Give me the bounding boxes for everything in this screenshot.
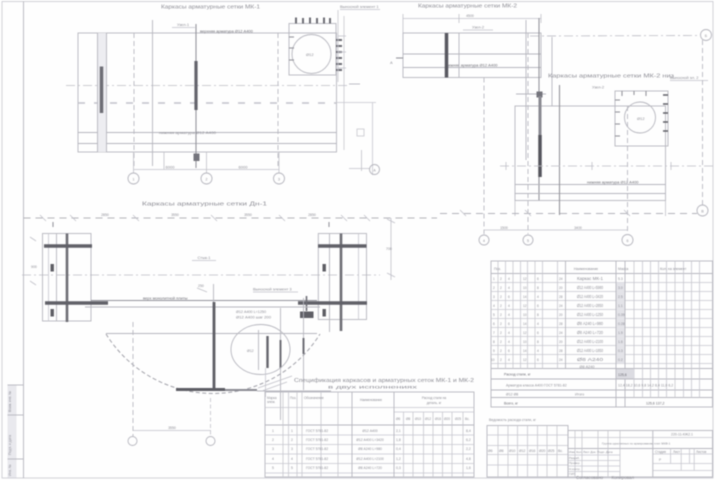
svg-text:Спецификация каркасов и армату: Спецификация каркасов и арматурных сеток… xyxy=(294,378,474,384)
detail element 1 right rebar ticks xyxy=(336,39,342,41)
svg-text:Ø12 А400 L=2100: Ø12 А400 L=2100 xyxy=(577,339,604,344)
view MK-2 lower vertical member xyxy=(559,85,561,215)
svg-text:24: 24 xyxy=(559,277,563,281)
view MK-2 horizontal axis xyxy=(500,165,713,167)
svg-text:8: 8 xyxy=(493,340,495,344)
svg-text:ГОСТ 5781-82: ГОСТ 5781-82 xyxy=(306,447,328,451)
svg-text:4: 4 xyxy=(508,286,510,290)
svg-text:12: 12 xyxy=(523,358,527,362)
svg-text:4: 4 xyxy=(272,457,274,461)
svg-text:1: 1 xyxy=(493,277,495,281)
svg-text:Кол. на элемент: Кол. на элемент xyxy=(660,267,687,271)
title block outline xyxy=(568,431,713,478)
left strip divider 1 xyxy=(8,384,24,386)
detail element 1 box xyxy=(289,24,336,76)
radius leader line xyxy=(258,376,292,388)
svg-text:3: 3 xyxy=(272,447,274,451)
center dim marks xyxy=(197,288,207,292)
svg-text:6000: 6000 xyxy=(239,165,249,170)
left bracket inner verticals xyxy=(48,234,50,322)
view MK-1 dimension line bottom xyxy=(134,169,280,171)
svg-text:Ведомость расхода стали, кг: Ведомость расхода стали, кг xyxy=(489,418,537,422)
svg-text:Ø12: Ø12 xyxy=(519,449,526,453)
svg-text:Ø6: Ø6 xyxy=(396,417,400,421)
svg-text:6,2: 6,2 xyxy=(466,438,471,442)
view MK-2 vertical member xyxy=(458,33,460,78)
grid bubble 5 xyxy=(523,235,533,245)
svg-text:1: 1 xyxy=(272,429,274,433)
bottom dimension line xyxy=(133,430,211,432)
right bracket rebar section marks xyxy=(323,264,326,272)
svg-text:Выносной элемент 3: Выносной элемент 3 xyxy=(253,287,292,292)
svg-text:3: 3 xyxy=(493,295,495,299)
svg-text:4500: 4500 xyxy=(466,14,474,18)
svg-text:верх монолитной плиты: верх монолитной плиты xyxy=(143,296,188,301)
svg-text:4: 4 xyxy=(508,304,510,308)
axis bubble top right xyxy=(701,30,712,41)
svg-text:6: 6 xyxy=(508,295,510,299)
svg-text:4: 4 xyxy=(537,295,539,299)
svg-text:Ø12 А400 L=2850: Ø12 А400 L=2850 xyxy=(577,303,604,308)
specification table header row line xyxy=(491,273,713,275)
center vertical column dark xyxy=(213,302,216,391)
svg-text:4: 4 xyxy=(508,331,510,335)
svg-text:Ø12 А400 L=1850: Ø12 А400 L=1850 xyxy=(577,348,604,353)
svg-text:14: 14 xyxy=(523,349,527,353)
svg-text:20: 20 xyxy=(559,340,563,344)
svg-text:4: 4 xyxy=(508,277,510,281)
detail element 2 circle xyxy=(625,102,656,133)
left margin strip xyxy=(8,385,17,478)
svg-text:1,8: 1,8 xyxy=(396,438,401,442)
position marks right of view MK-1 xyxy=(338,35,346,37)
svg-text:Обозначение: Обозначение xyxy=(304,396,324,400)
view MK-1 grid dashed line C xyxy=(277,33,279,168)
view MK-1 right edge extension xyxy=(337,10,339,82)
axis line to right bubble xyxy=(530,35,700,38)
svg-text:7: 7 xyxy=(493,331,495,335)
svg-text:2: 2 xyxy=(500,322,502,326)
svg-text:Ø12 А400 L=3420: Ø12 А400 L=3420 xyxy=(356,438,384,442)
svg-text:Ø16: Ø16 xyxy=(529,449,536,453)
grid bubble 2 xyxy=(201,173,212,184)
svg-text:1.6: 1.6 xyxy=(618,340,623,344)
middle table header text xyxy=(267,396,470,421)
left bracket top dark band xyxy=(44,244,92,247)
svg-text:0.3: 0.3 xyxy=(618,349,623,353)
svg-text:2850: 2850 xyxy=(308,213,316,217)
view MK-2 lower inner line 2 xyxy=(515,193,666,195)
detail element 1 top rebar ticks xyxy=(295,18,297,24)
grid bubble 4 xyxy=(479,235,489,245)
svg-text:Ø20: Ø20 xyxy=(539,449,546,453)
svg-text:Каркасы арматурные сетки МК-2: Каркасы арматурные сетки МК-2 низ xyxy=(548,74,675,80)
view MK-2 upper lower line with note xyxy=(403,67,541,69)
svg-text:Ø12 А400 L=3420: Ø12 А400 L=3420 xyxy=(577,294,604,299)
svg-text:3550: 3550 xyxy=(168,426,176,430)
svg-text:4: 4 xyxy=(537,322,539,326)
right bracket lower dark band xyxy=(298,301,367,304)
tank bottom arc dashed xyxy=(106,334,320,393)
svg-text:Поз.: Поз. xyxy=(494,267,501,271)
svg-text:5.3: 5.3 xyxy=(618,277,623,281)
svg-text:10: 10 xyxy=(523,340,527,344)
svg-text:2: 2 xyxy=(493,286,495,290)
svg-text:1: 1 xyxy=(291,429,293,433)
svg-text:8: 8 xyxy=(537,313,539,317)
svg-text:1: 1 xyxy=(133,178,135,182)
svg-text:Лист: Лист xyxy=(673,450,680,454)
svg-text:28: 28 xyxy=(559,349,563,353)
specification rows text xyxy=(577,276,604,369)
svg-text:Арматура класса А400 ГОСТ 5781: Арматура класса А400 ГОСТ 5781-82 xyxy=(506,384,567,388)
svg-text:Узел-2: Узел-2 xyxy=(472,25,485,30)
svg-text:Изм. Кол. Лист Док. Подп. Дата: Изм. Кол. Лист Док. Подп. Дата xyxy=(569,450,613,454)
svg-text:ГОСТ 5781-82: ГОСТ 5781-82 xyxy=(306,429,328,433)
svg-text:3400: 3400 xyxy=(574,226,582,230)
svg-text:Выносной элемент 1: Выносной элемент 1 xyxy=(340,4,379,9)
svg-text:Ø8: Ø8 xyxy=(406,417,410,421)
svg-text:Наименование: Наименование xyxy=(574,267,598,271)
beam junction plate xyxy=(300,312,314,319)
svg-text:2: 2 xyxy=(500,313,502,317)
svg-text:нижняя арматура Ø12 А400: нижняя арматура Ø12 А400 xyxy=(159,130,217,135)
svg-text:2: 2 xyxy=(272,438,274,442)
svg-text:24: 24 xyxy=(559,304,563,308)
dimension row below MK-2 xyxy=(440,213,697,215)
svg-text:Ø12 А400 шаг 200: Ø12 А400 шаг 200 xyxy=(236,316,271,320)
svg-text:2: 2 xyxy=(500,340,502,344)
left bracket dim ticks xyxy=(30,281,36,285)
svg-text:Ø12 А400: Ø12 А400 xyxy=(362,429,377,433)
svg-text:1,2: 1,2 xyxy=(396,457,401,461)
svg-text:1.9: 1.9 xyxy=(618,331,623,335)
svg-text:0.39: 0.39 xyxy=(618,313,625,317)
view MK-1 vertical member xyxy=(152,20,154,166)
svg-text:Взам. инв. №: Взам. инв. № xyxy=(8,391,12,412)
svg-text:3.0: 3.0 xyxy=(618,286,623,290)
elevation dimension row top xyxy=(24,217,438,219)
svg-text:4: 4 xyxy=(291,457,293,461)
svg-text:20: 20 xyxy=(559,286,563,290)
view MK-2 upper dimension line xyxy=(403,18,541,20)
svg-text:2,1: 2,1 xyxy=(396,429,401,433)
view MK-2 lower inner line with note xyxy=(515,184,666,186)
svg-text:Масса: Масса xyxy=(618,267,628,271)
steel table row lines xyxy=(487,434,568,436)
svg-text:ГОСТ 5781-82: ГОСТ 5781-82 xyxy=(306,466,328,470)
right joint vertical member xyxy=(303,298,305,390)
svg-text:2.5: 2.5 xyxy=(618,295,623,299)
svg-text:28: 28 xyxy=(559,295,563,299)
svg-text:10: 10 xyxy=(523,286,527,290)
svg-text:3550: 3550 xyxy=(171,213,179,217)
step connector lines between MK-2 parts xyxy=(525,20,527,160)
svg-text:Провер.: Провер. xyxy=(569,461,580,465)
hidden row extension L xyxy=(336,102,376,104)
detail element 2 ticks xyxy=(663,94,668,96)
svg-text:элем.: элем. xyxy=(267,400,275,404)
left bracket lower dark band xyxy=(45,301,108,304)
svg-text:220-11-КЖ2.1: 220-11-КЖ2.1 xyxy=(671,433,693,437)
svg-text:6: 6 xyxy=(508,322,510,326)
detail ellipse inner bars xyxy=(258,330,260,370)
svg-text:2,2: 2,2 xyxy=(466,447,471,451)
svg-text:0,4: 0,4 xyxy=(396,447,401,451)
detail ellipse xyxy=(231,325,290,375)
svg-text:Ø12 Ø8: Ø12 Ø8 xyxy=(506,393,518,397)
svg-text:4: 4 xyxy=(493,304,495,308)
view MK-1 band mid line xyxy=(78,143,337,145)
left strip divider 3 xyxy=(8,458,24,460)
grid dashed drop center xyxy=(210,398,212,436)
view MK-1 column band xyxy=(98,33,107,152)
svg-text:Инв. №: Инв. № xyxy=(8,464,12,476)
svg-text:2: 2 xyxy=(500,304,502,308)
title block left rows text xyxy=(569,450,613,476)
svg-text:2: 2 xyxy=(500,331,502,335)
svg-text:Разраб.: Разраб. xyxy=(569,456,580,460)
svg-text:Согласовано: Согласовано xyxy=(576,475,604,480)
title block vertical lines xyxy=(574,431,576,478)
svg-text:Ø8 А240 L=980: Ø8 А240 L=980 xyxy=(577,321,604,326)
svg-text:2: 2 xyxy=(500,286,502,290)
svg-text:6: 6 xyxy=(537,358,539,362)
svg-text:8,4: 8,4 xyxy=(466,429,471,433)
beam bottom line xyxy=(85,306,320,308)
left bracket top tick xyxy=(52,222,54,227)
svg-text:Ø10: Ø10 xyxy=(509,449,516,453)
step junction dark blob xyxy=(537,92,543,98)
detail element 1 circle xyxy=(292,35,331,74)
svg-text:1,6: 1,6 xyxy=(466,466,471,470)
svg-text:Каркасы арматурные сетки Дн-1: Каркасы арматурные сетки Дн-1 xyxy=(142,202,267,208)
view MK-1 grid dashed line B xyxy=(133,33,135,168)
svg-text:3: 3 xyxy=(278,178,280,182)
svg-text:Ø16: Ø16 xyxy=(435,417,441,421)
svg-text:5: 5 xyxy=(527,239,529,243)
svg-text:Ø10: Ø10 xyxy=(415,417,421,421)
svg-text:125,6 137,2: 125,6 137,2 xyxy=(646,402,665,406)
svg-text:Ø12: Ø12 xyxy=(425,417,431,421)
svg-text:ГОСТ 5781-82: ГОСТ 5781-82 xyxy=(306,457,328,461)
svg-text:2: 2 xyxy=(500,358,502,362)
svg-text:12,4 18,2 10,6 9,8 14,2 8: 12,4 18,2 10,6 9,8 14,2 8,4 11,0 6,2 xyxy=(618,384,673,388)
svg-text:4: 4 xyxy=(508,358,510,362)
steel table column lines xyxy=(497,426,499,478)
svg-text:нижняя арматура Ø12 А400: нижняя арматура Ø12 А400 xyxy=(446,63,498,68)
svg-text:Ø6: Ø6 xyxy=(488,449,493,453)
view MK-1 outline xyxy=(78,33,337,152)
right grid axis vertical xyxy=(702,40,704,205)
svg-text:Ø12: Ø12 xyxy=(306,52,314,57)
svg-text:10: 10 xyxy=(491,358,495,362)
specification table row lines xyxy=(491,282,713,284)
svg-text:Каркасы арматурные сетки МК-1: Каркасы арматурные сетки МК-1 xyxy=(161,5,260,11)
svg-text:0.2: 0.2 xyxy=(618,358,623,362)
left strip divider 2 xyxy=(8,414,24,416)
svg-text:6: 6 xyxy=(537,277,539,281)
view MK-2 lower edge extensions xyxy=(514,201,516,217)
view MK-2 thick rebar bar xyxy=(445,33,449,78)
middle table header lines xyxy=(265,407,474,409)
svg-text:2: 2 xyxy=(291,438,293,442)
svg-text:Н.контр.: Н.контр. xyxy=(569,467,581,471)
grid bubble A xyxy=(128,437,137,446)
svg-text:24: 24 xyxy=(559,331,563,335)
svg-text:Ø8 А240 L=720: Ø8 А240 L=720 xyxy=(577,330,604,335)
axis bubble right lower xyxy=(697,205,708,216)
view MK-2 upper mid line xyxy=(403,53,541,55)
svg-text:Расход стали, кг: Расход стали, кг xyxy=(504,373,531,377)
svg-text:Ø8 А240: Ø8 А240 xyxy=(580,365,595,369)
svg-text:Всего, кг: Всего, кг xyxy=(504,402,519,406)
right inner vertical member xyxy=(280,308,282,420)
svg-text:ГОСТ 5781-82: ГОСТ 5781-82 xyxy=(306,438,328,442)
specification mass column shading xyxy=(617,283,625,364)
svg-text:Наименование: Наименование xyxy=(360,398,382,402)
view MK-1 hidden bar row xyxy=(78,102,336,104)
svg-text:6000: 6000 xyxy=(166,165,176,170)
svg-text:2850: 2850 xyxy=(101,213,109,217)
grid bubble 6 xyxy=(622,235,633,246)
steel table outline xyxy=(487,426,568,478)
svg-text:Поз.: Поз. xyxy=(290,396,296,400)
svg-text:2: 2 xyxy=(206,178,208,182)
svg-text:20: 20 xyxy=(559,313,563,317)
specification mass values xyxy=(618,277,625,362)
svg-text:3550: 3550 xyxy=(244,213,252,217)
svg-text:2: 2 xyxy=(500,349,502,353)
svg-text:нижняя арматура Ø12 А400: нижняя арматура Ø12 А400 xyxy=(587,180,639,185)
detail element 1 left ticks xyxy=(289,36,294,38)
svg-text:Ø12 А400 L=1250: Ø12 А400 L=1250 xyxy=(577,312,604,317)
middle table outline xyxy=(265,392,474,477)
main beam top line xyxy=(91,300,317,302)
svg-text:Группа однотипных по армирован: Группа однотипных по армированию плит МК… xyxy=(602,442,671,446)
svg-text:28: 28 xyxy=(559,322,563,326)
specification table column lines xyxy=(497,261,499,369)
elevation horizontal axis xyxy=(22,274,380,276)
svg-text:3: 3 xyxy=(291,447,293,451)
svg-text:14: 14 xyxy=(523,295,527,299)
view MK-1 horizontal axis xyxy=(66,85,348,87)
grid bubble 1 xyxy=(128,173,139,184)
right bracket thick vertical rebar xyxy=(340,234,343,332)
svg-text:4,8: 4,8 xyxy=(466,457,471,461)
left bracket rebar section marks xyxy=(51,264,54,272)
title block horizontal lines xyxy=(568,437,713,439)
svg-text:Ø8 А240: Ø8 А240 xyxy=(577,357,604,362)
center vertical column upper xyxy=(213,284,215,302)
specification left columns digits xyxy=(491,277,563,362)
grid bubble 3 xyxy=(274,173,285,184)
view MK-2 lower outline xyxy=(515,106,666,201)
axis bubble right of view MK-1 xyxy=(361,150,363,171)
svg-text:12: 12 xyxy=(523,331,527,335)
left strip rotated labels xyxy=(8,391,12,476)
svg-text:0.28: 0.28 xyxy=(618,322,625,326)
svg-text:Узел-2: Узел-2 xyxy=(592,85,605,90)
vertical dim line mid sheet xyxy=(390,218,392,280)
axis tick right xyxy=(349,83,360,85)
svg-text:1500: 1500 xyxy=(500,226,508,230)
svg-text:Стык-1: Стык-1 xyxy=(198,255,212,260)
svg-text:900: 900 xyxy=(31,265,37,269)
svg-text:6: 6 xyxy=(493,322,495,326)
right bracket inner verticals xyxy=(329,234,331,333)
svg-text:А: А xyxy=(390,60,393,65)
svg-text:Ø8: Ø8 xyxy=(499,449,504,453)
svg-text:Узел-1: Узел-1 xyxy=(177,22,190,27)
svg-text:верхняя арматура Ø12 А400: верхняя арматура Ø12 А400 xyxy=(200,29,254,34)
left bracket thick vertical rebar xyxy=(66,234,69,323)
svg-text:деталь, кг: деталь, кг xyxy=(427,401,442,405)
svg-text:в двух исполнениях: в двух исполнениях xyxy=(328,385,419,390)
svg-text:8: 8 xyxy=(537,286,539,290)
right bracket top dark band xyxy=(318,244,367,247)
svg-text:Р: Р xyxy=(659,458,661,462)
svg-text:14: 14 xyxy=(523,322,527,326)
svg-text:Вс.: Вс. xyxy=(465,417,470,421)
svg-text:2: 2 xyxy=(500,277,502,281)
detail element 2 box xyxy=(615,91,668,146)
svg-text:24: 24 xyxy=(559,358,563,362)
svg-text:Ø12: Ø12 xyxy=(247,349,254,353)
svg-text:4: 4 xyxy=(537,349,539,353)
svg-text:6: 6 xyxy=(537,331,539,335)
svg-text:5: 5 xyxy=(493,313,495,317)
svg-text:4: 4 xyxy=(508,340,510,344)
svg-text:Ø8 А240 L=980: Ø8 А240 L=980 xyxy=(358,447,382,451)
middle table column lines xyxy=(282,392,284,477)
svg-text:Каркас МК-1: Каркас МК-1 xyxy=(577,276,604,281)
right bracket top tick xyxy=(328,222,330,227)
svg-text:Выносной эл. 2: Выносной эл. 2 xyxy=(670,75,699,80)
svg-text:Подп. и дата: Подп. и дата xyxy=(8,435,12,455)
right extension vertical xyxy=(343,16,345,150)
svg-text:Ø12: Ø12 xyxy=(637,116,645,121)
svg-text:Ø20: Ø20 xyxy=(444,417,450,421)
svg-text:ГИП: ГИП xyxy=(569,472,575,476)
svg-text:Стадия: Стадия xyxy=(655,450,666,454)
svg-text:6: 6 xyxy=(508,349,510,353)
inner frame left margin line xyxy=(23,2,25,479)
svg-text:Вс.: Вс. xyxy=(558,449,563,453)
grid bubble B xyxy=(206,437,215,446)
svg-text:250: 250 xyxy=(198,284,204,288)
svg-text:5: 5 xyxy=(272,466,274,470)
right bracket outline xyxy=(318,234,366,320)
svg-text:Ø12 А400 L=2100: Ø12 А400 L=2100 xyxy=(356,457,384,461)
dimension line between grid bubbles xyxy=(484,229,628,231)
styk joint mark xyxy=(306,296,308,311)
view MK-2 grid dashed lines xyxy=(483,78,485,235)
svg-text:6: 6 xyxy=(537,304,539,308)
svg-text:Копировал: Копировал xyxy=(612,475,635,480)
svg-text:Ø8 А240 L=720: Ø8 А240 L=720 xyxy=(358,466,382,470)
view MK-1 inner band line xyxy=(78,132,337,134)
svg-text:9: 9 xyxy=(493,349,495,353)
svg-text:Ø12 А400 L=1250: Ø12 А400 L=1250 xyxy=(236,310,266,314)
svg-text:Ø25: Ø25 xyxy=(548,449,555,453)
svg-text:700: 700 xyxy=(386,247,392,251)
svg-text:Итого: Итого xyxy=(575,393,584,397)
view MK-2 lower thick rebar bar xyxy=(539,96,542,135)
svg-text:12: 12 xyxy=(523,304,527,308)
grid dashed drop left xyxy=(132,322,134,436)
svg-text:Расход стали на: Расход стали на xyxy=(422,396,446,400)
